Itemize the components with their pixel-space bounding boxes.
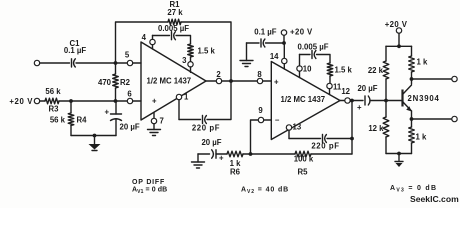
svg-text:+: + (274, 78, 279, 87)
svg-text:220 pF: 220 pF (311, 142, 339, 151)
svg-text:3: 3 (182, 56, 187, 65)
wire bottom rail divider (386, 153, 412, 155)
svg-text:13: 13 (293, 123, 302, 132)
node B junction (R4 tap) (69, 99, 73, 103)
svg-text:4: 4 (142, 33, 147, 42)
svg-text:R2: R2 (120, 78, 131, 87)
svg-text:7: 7 (160, 117, 164, 126)
+20V terminal (op2) (281, 28, 313, 44)
ground + capacitor 20 uF (R6 input) (192, 138, 228, 168)
pin 2 (216, 78, 221, 83)
svg-text:R4: R4 (77, 116, 88, 125)
svg-text:1/2 MC 1437: 1/2 MC 1437 (281, 95, 326, 104)
wire R2 stubs (115, 63, 117, 74)
resistor R4 56 k (50, 101, 87, 136)
svg-text:2N3904: 2N3904 (408, 94, 440, 103)
pin 9 and feedback drop (251, 106, 272, 154)
wire feedback top rail left (116, 22, 169, 63)
svg-text:20 µF: 20 µF (357, 84, 377, 93)
svg-text:0.1 µF: 0.1 µF (64, 46, 86, 55)
capacitor 0.005 uF (op1) (153, 24, 191, 44)
svg-text:1.5 k: 1.5 k (335, 66, 353, 75)
pin 11 (327, 83, 342, 95)
wire pin6 to op-amp (133, 100, 141, 102)
svg-text:100 k: 100 k (294, 155, 314, 164)
wire node C to pin 6 (116, 100, 128, 102)
wire R5 to node F drop (311, 153, 352, 155)
node J base junction (384, 99, 388, 103)
svg-text:56 k: 56 k (45, 87, 61, 96)
node L junction (397, 152, 401, 156)
svg-text:470: 470 (98, 78, 112, 87)
svg-text:6: 6 (127, 90, 132, 99)
ground (chassis arrow) under R4 wire (89, 134, 101, 151)
node D output junction (229, 79, 233, 83)
svg-text:SeekIC.com: SeekIC.com (410, 194, 459, 204)
svg-text:22 k: 22 k (368, 66, 384, 75)
transistor Q1 2N3904 (403, 85, 440, 119)
svg-text:R5: R5 (298, 168, 309, 177)
svg-text:1 k: 1 k (416, 133, 428, 142)
wire pin8 to op2 (263, 80, 272, 82)
pin 12 (345, 98, 350, 103)
wire R3 to node B (59, 100, 116, 102)
pin 4 (142, 33, 156, 49)
wire node F down to feedback (351, 101, 353, 155)
capacitor 220 pF (op2) (289, 135, 352, 151)
svg-text:OP DIFF: OP DIFF (132, 179, 165, 186)
svg-text:AV3 = 0 dB: AV3 = 0 dB (390, 185, 437, 194)
svg-text:8: 8 (257, 70, 262, 79)
svg-text:9: 9 (258, 106, 263, 115)
svg-text:20 µF: 20 µF (201, 138, 221, 147)
node A junction (feedback/input) (114, 61, 118, 65)
input terminal left (34, 60, 39, 65)
node G junction (pin 9 tap) (249, 152, 253, 156)
node H junction (397, 44, 401, 48)
wire bottom R4 to 20uF (71, 135, 116, 137)
wire input to C1 (40, 62, 70, 64)
capacitor 20 uF coupling (to Q1) (357, 84, 386, 112)
op-amp U2 triangle (271, 62, 340, 140)
wire pin5 to op-amp (133, 62, 141, 64)
capacitor 220 pF (op1) (179, 81, 231, 133)
wire C1 to node A (76, 62, 116, 64)
svg-text:5: 5 (125, 51, 130, 60)
svg-text:+20 V: +20 V (290, 28, 313, 37)
output terminal 2 (452, 116, 457, 121)
svg-text:R6: R6 (230, 168, 241, 177)
wire emitter output (412, 118, 452, 120)
svg-text:+20 V: +20 V (9, 97, 33, 106)
svg-text:AV1 = 0 dB: AV1 = 0 dB (132, 187, 167, 196)
+20V terminal left (34, 98, 39, 103)
svg-text:220 pF: 220 pF (192, 124, 220, 133)
pin 8 (257, 78, 262, 83)
node F output junction op2 (350, 100, 363, 102)
svg-text:27 k: 27 k (167, 8, 183, 17)
resistor 22 k (368, 46, 389, 100)
output terminal 1 (452, 76, 457, 81)
resistor 1.5 k (op1) (188, 44, 216, 62)
resistor R1 27 k (167, 0, 183, 25)
svg-text:+: + (357, 103, 362, 112)
resistor 1 k emitter load (409, 119, 427, 154)
svg-text:12 k: 12 k (368, 124, 384, 133)
svg-text:1.5 k: 1.5 k (198, 47, 216, 56)
svg-text:–: – (275, 116, 280, 125)
svg-text:12: 12 (341, 87, 350, 96)
wire collector output (412, 78, 452, 80)
svg-text:10: 10 (303, 65, 312, 74)
svg-text:0.1 µF: 0.1 µF (254, 28, 276, 37)
node E junction (282, 41, 286, 45)
pin 3 (182, 56, 193, 72)
svg-text:1: 1 (184, 93, 189, 102)
op-amp U1 triangle (141, 42, 206, 120)
svg-text:2: 2 (216, 70, 221, 79)
svg-text:+20 V: +20 V (385, 20, 408, 29)
wire op2 output (340, 100, 345, 102)
ground (chassis arrow) under divider (395, 154, 403, 168)
resistor R3 56 k (45, 87, 61, 114)
svg-text:AV2 = 40 dB: AV2 = 40 dB (241, 187, 289, 196)
wire base (386, 100, 402, 102)
svg-text:+: + (104, 108, 109, 117)
capacitor C1 0.1 uF (64, 39, 86, 67)
wire top rail divider (386, 45, 412, 47)
svg-text:0.005 µF: 0.005 µF (158, 24, 189, 33)
svg-text:20 µF: 20 µF (120, 123, 140, 132)
capacitor 0.1 uF decoupling (op2) with ground (240, 28, 284, 67)
resistor R2 470 (98, 74, 131, 88)
pin 5 (127, 60, 132, 65)
wire node A to pin5 (116, 62, 128, 64)
resistor 12 k (368, 101, 388, 154)
svg-text:14: 14 (270, 52, 279, 61)
capacitor 0.005 uF (op2) (298, 43, 330, 64)
pin 13 (286, 123, 302, 139)
+20V terminal (Q1 stage) (385, 20, 408, 46)
svg-text:0.005 µF: 0.005 µF (298, 43, 329, 52)
pin 6 (127, 98, 132, 103)
resistor R5 100 k (294, 151, 314, 176)
node K emitter output junction (410, 117, 414, 121)
pin 10 (297, 55, 312, 78)
node I collector output junction (410, 77, 414, 81)
svg-text:+: + (152, 97, 157, 106)
wire R6 to R5 (243, 153, 295, 155)
pin 7 and ground (148, 113, 164, 136)
pin 14 (270, 43, 287, 69)
pin 1 (176, 93, 189, 120)
resistor 1.5 k (op2) (327, 63, 352, 83)
svg-text:R3: R3 (49, 105, 60, 114)
wire pin2 to op2 (222, 80, 258, 82)
resistor R6 1 k (227, 151, 243, 176)
svg-text:1 k: 1 k (417, 58, 429, 67)
wire feedback top rail right (181, 22, 231, 81)
svg-text:+: + (219, 154, 224, 163)
wire op1 output to pin 2 (206, 80, 216, 82)
resistor 1 k collector load (409, 46, 428, 84)
svg-text:56 k: 56 k (50, 116, 66, 125)
node C junction (R2 bottom / bypass) (114, 99, 118, 103)
svg-text:1/2 MC 1437: 1/2 MC 1437 (147, 77, 192, 86)
capacitor 20 uF bypass (pin 6) (104, 101, 139, 136)
wire +20V to R3 (40, 100, 45, 102)
